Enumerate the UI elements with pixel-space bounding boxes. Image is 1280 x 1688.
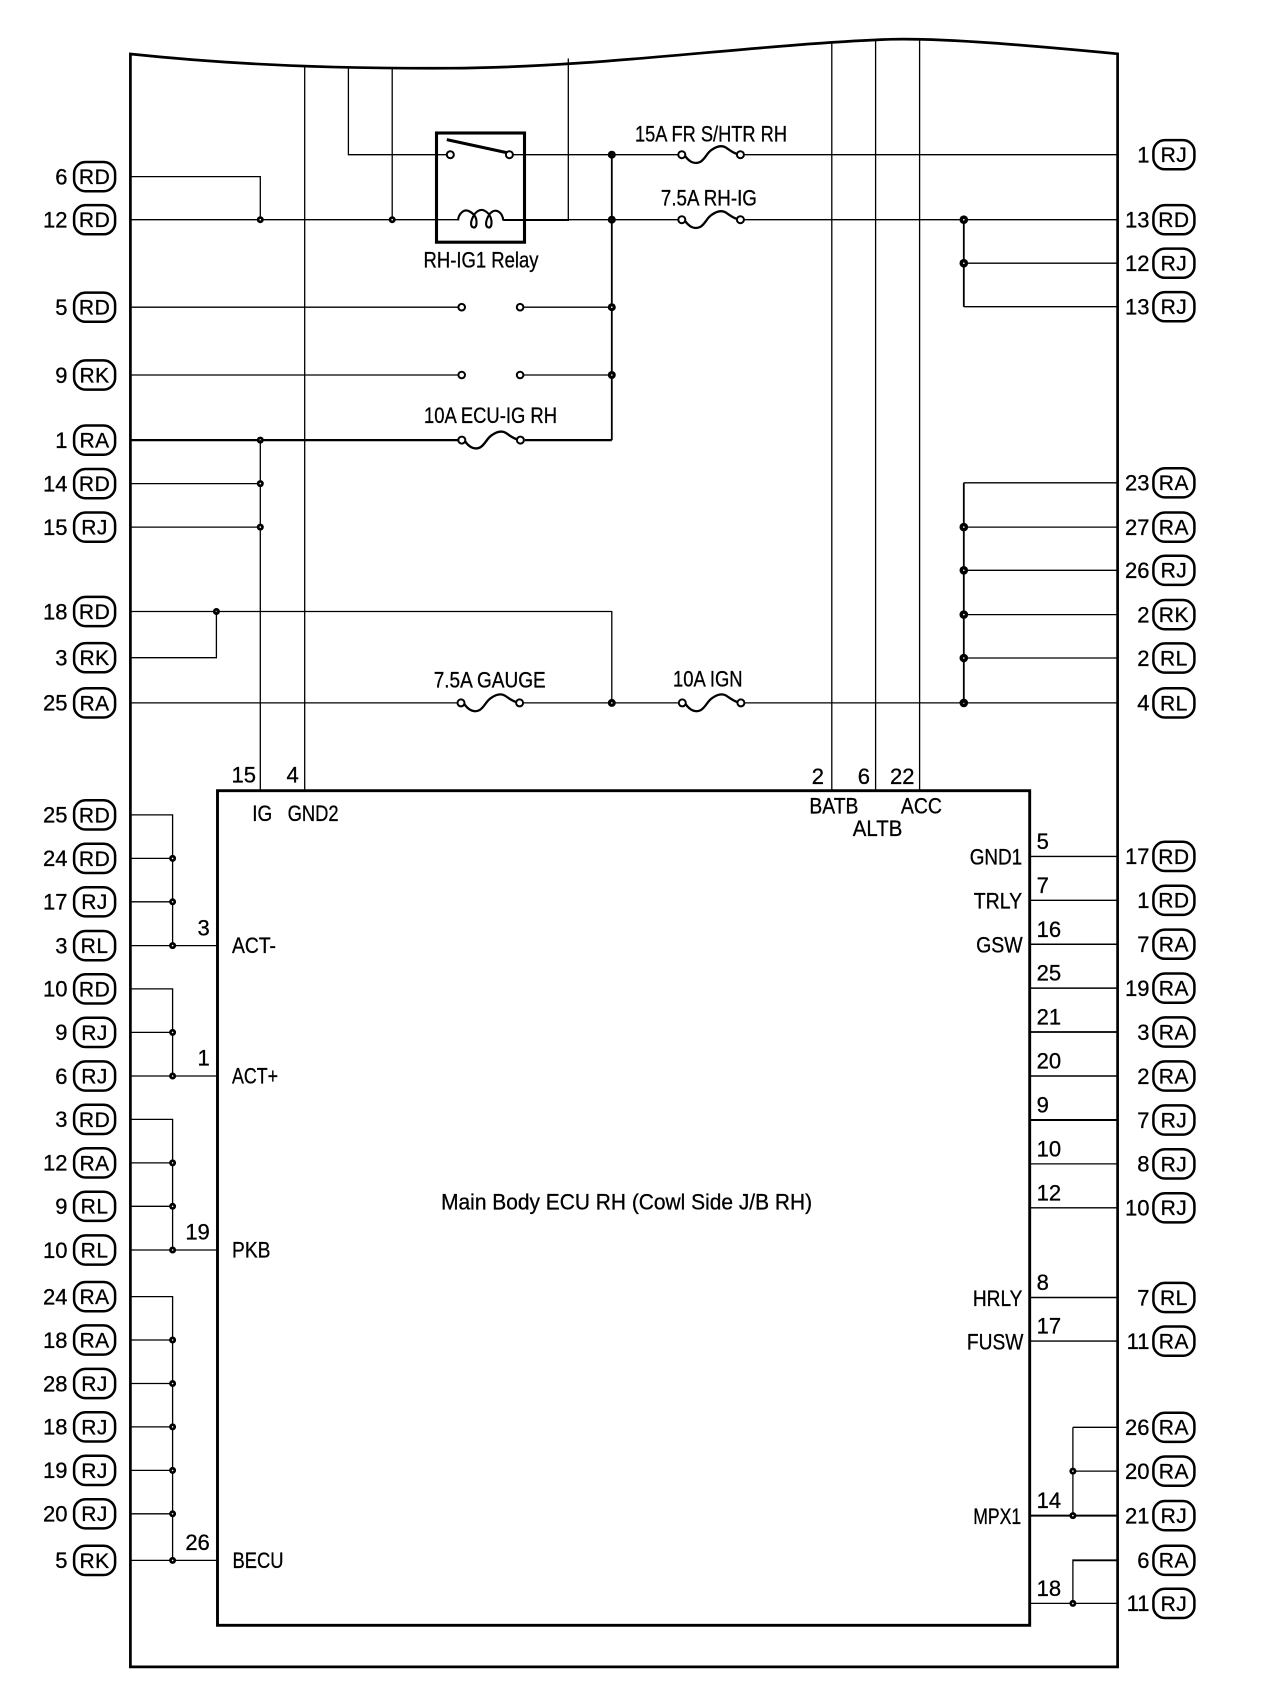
connector 2 RA (right) [1137,1061,1194,1090]
svg-text:RA: RA [80,1329,110,1352]
wire IG bus vertical [611,155,613,440]
connector 2 RL (right) [1137,643,1194,672]
connector 21 RJ (right) [1125,1501,1194,1530]
svg-text:25: 25 [1037,961,1061,986]
wire 28 RJ [132,1383,173,1385]
wire 9 RJ [132,1031,173,1033]
connector 14 RD (left) [43,469,115,498]
svg-text:20: 20 [1125,1459,1149,1484]
wire fuse 7.5A GAUGE to fuse 10A IGN [523,702,679,704]
svg-text:18: 18 [43,1415,67,1440]
svg-text:7.5A RH-IG: 7.5A RH-IG [661,186,757,211]
junction 11 RJ / 6 RA branch [1069,1600,1076,1607]
svg-text:RD: RD [79,804,110,827]
connector 26 RA (right) [1125,1413,1194,1442]
wire branch to 20 RA [1073,1470,1117,1472]
svg-text:3: 3 [55,646,67,671]
connector 4 RL (right) [1137,688,1194,717]
svg-text:RA: RA [80,692,110,715]
wire bus to 12 RJ [964,262,1117,264]
junction 1 RA / IG pin line [257,437,264,444]
connector 18 RA (left) [43,1325,115,1354]
wire 9 RL [132,1205,173,1207]
svg-text:RJ: RJ [1161,560,1188,583]
svg-text:RJ: RJ [81,1416,108,1439]
svg-text:7.5A GAUGE: 7.5A GAUGE [434,667,546,692]
svg-text:RA: RA [1159,1065,1189,1088]
svg-text:RA: RA [80,1152,110,1175]
wire pin 8 to 7 RL [1030,1297,1117,1299]
wire 19 RJ [132,1469,173,1471]
junction 15 RJ [257,524,264,531]
svg-text:8: 8 [1137,1152,1149,1177]
svg-text:10: 10 [43,1238,67,1263]
connector 6 RA (right) [1137,1546,1194,1575]
junction 18 RD / 3 RK [213,608,220,615]
junction IG bus / 7.5A row [608,216,616,224]
svg-text:13: 13 [1125,208,1149,233]
svg-text:3: 3 [55,1107,67,1132]
wire fuse 7.5A RH-IG to 13 RD [744,219,1117,221]
svg-text:20: 20 [1037,1049,1061,1074]
svg-text:27: 27 [1125,515,1149,540]
svg-text:RD: RD [1158,209,1189,232]
svg-text:9: 9 [55,1194,67,1219]
wire bus to 26 RJ [964,569,1117,571]
svg-text:FUSW: FUSW [967,1329,1024,1354]
wire pin 21 to 3 RA [1030,1031,1117,1033]
svg-text:10A ECU-IG RH: 10A ECU-IG RH [424,403,557,428]
svg-text:25: 25 [43,803,67,828]
connector 17 RD (right) [1125,842,1194,871]
wire ACC feed from top border (pin 22) [919,40,921,791]
wire pin 5 to 17 RD [1030,855,1117,857]
svg-text:RK: RK [1159,604,1189,627]
junction 24 RD [169,855,176,862]
svg-text:16: 16 [1037,917,1061,942]
wire 17 RJ [132,901,173,903]
junction IG bus / 15A row [608,151,616,159]
svg-text:RA: RA [1159,517,1189,540]
svg-text:12: 12 [1037,1180,1061,1205]
svg-text:RL: RL [81,1239,109,1262]
wire right bus lower vertical [963,483,965,703]
wire 18 RD to GAUGE node [132,612,612,703]
svg-text:RA: RA [80,1286,110,1309]
wire pin 16 to 7 RA [1030,943,1117,945]
connector 7 RA (right) [1137,930,1194,959]
svg-text:3: 3 [55,933,67,958]
connector 18 RD (left) [43,597,115,626]
connector 3 RA (right) [1137,1017,1194,1046]
wire 6 RJ to ACT+ pin 1 [132,1075,217,1077]
wire 25 RA to fuse 7.5A GAUGE [132,702,458,704]
svg-text:22: 22 [890,764,914,789]
svg-text:RJ: RJ [1161,1109,1188,1132]
junction 12 RA [169,1159,176,1166]
wire 25 RD branch to ACT- net [132,815,173,946]
wire 6 RD to 12 RD node [132,177,261,220]
svg-text:RA: RA [1159,1331,1189,1354]
svg-text:Main Body ECU RH (Cowl Side J/: Main Body ECU RH (Cowl Side J/B RH) [441,1189,812,1214]
svg-text:2: 2 [1137,602,1149,627]
connector 3 RD (left) [55,1105,115,1134]
wire BATB feed from top border (pin 2) [831,42,833,791]
junction GAUGE row / 18 RD drop [608,699,616,707]
junction 6 RJ / branch [169,1073,176,1080]
svg-text:RA: RA [1159,934,1189,957]
svg-text:ALTB: ALTB [853,816,903,841]
connector 11 RA (right) [1127,1327,1195,1356]
svg-text:RJ: RJ [81,1503,108,1526]
connector 7 RJ (right) [1137,1105,1194,1134]
contact points row 9 RK [458,372,523,379]
svg-text:18: 18 [43,599,67,624]
connector 19 RA (right) [1125,974,1194,1003]
connector 2 RK (right) [1137,600,1194,629]
svg-text:12: 12 [43,208,67,233]
wire pin 7 to 1 RD [1030,899,1117,901]
svg-text:19: 19 [185,1220,209,1245]
svg-text:9: 9 [55,363,67,388]
wire branch to 26 RA [1073,1426,1117,1428]
wire MPX1 branch vertical [1072,1427,1074,1515]
wire IG pin line (pin 15) [259,440,261,791]
connector 1 RA (left) [55,426,115,455]
J/B boundary frame (wavy top) [130,39,1117,1667]
svg-text:RD: RD [79,601,110,624]
wire pin 10 to 8 RJ [1030,1163,1117,1165]
svg-text:RA: RA [1159,472,1189,495]
wire 10 RL to PKB pin 19 [132,1249,217,1251]
svg-text:RA: RA [1159,978,1189,1001]
junction 2 RK [960,610,969,619]
svg-text:RL: RL [81,1196,109,1219]
junction IGN row / right bus [960,699,969,708]
svg-text:1: 1 [1137,143,1149,168]
svg-text:GSW: GSW [976,933,1023,958]
connector 1 RJ (right) [1137,140,1194,169]
wire contact point to IG bus (9 RK row) [523,374,612,376]
svg-text:RJ: RJ [1161,144,1188,167]
junction 10 RL / branch [169,1247,176,1254]
svg-text:RJ: RJ [1161,1153,1188,1176]
connector 18 RJ (left) [43,1412,115,1441]
svg-text:RD: RD [79,297,110,320]
svg-text:RJ: RJ [1161,1505,1188,1528]
wire relay coil to top border [503,59,568,221]
connector 20 RJ (left) [43,1499,115,1528]
connector 19 RJ (left) [43,1456,115,1485]
svg-text:5: 5 [55,1548,67,1573]
connector 10 RL (left) [43,1235,115,1264]
connector 23 RA (right) [1125,468,1194,497]
svg-text:18: 18 [1037,1576,1061,1601]
svg-text:28: 28 [43,1371,67,1396]
connector 6 RJ (left) [55,1061,115,1090]
wire bus to 23 RA [964,482,1117,484]
svg-text:RJ: RJ [81,517,108,540]
connector 12 RA (left) [43,1148,115,1177]
svg-text:RL: RL [1160,1287,1188,1310]
wire 6 RA branch vertical [1072,1559,1074,1603]
connector 20 RA (right) [1125,1457,1194,1486]
fuse 10A ECU-IG RH [458,432,524,449]
svg-text:RK: RK [80,647,110,670]
wire 20 RJ [132,1513,173,1515]
wire relay switch feed from top border [348,67,446,155]
connector 1 RD (right) [1137,886,1194,915]
svg-text:6: 6 [55,164,67,189]
svg-text:15A FR S/HTR RH: 15A FR S/HTR RH [635,122,787,147]
svg-text:3: 3 [1137,1020,1149,1045]
connector 13 RD (right) [1125,205,1194,234]
wire ALTB feed from top border (pin 6) [875,40,877,790]
svg-text:6: 6 [1137,1548,1149,1573]
junction 28 RJ [169,1380,176,1387]
connector 12 RJ (right) [1125,249,1194,278]
svg-text:RK: RK [80,1550,110,1573]
Main Body ECU RH box [218,791,1030,1626]
wire 12 RA [132,1162,173,1164]
wire 5 RK to BECU pin 26 [132,1559,217,1561]
svg-text:7: 7 [1037,873,1049,898]
svg-text:IG: IG [252,801,272,826]
svg-text:10: 10 [1125,1196,1149,1221]
svg-text:21: 21 [1125,1503,1149,1528]
relay RH-IG1 switch contacts [447,140,513,159]
svg-text:RL: RL [1160,647,1188,670]
connector 7 RL (right) [1137,1283,1194,1312]
svg-text:17: 17 [1037,1314,1061,1339]
svg-text:RA: RA [1159,1461,1189,1484]
wire feed from top border to 12 RD node [391,68,393,220]
connector 24 RA (left) [43,1282,115,1311]
wire pin 18 to 11 RJ [1030,1602,1117,1604]
svg-text:1: 1 [55,428,67,453]
svg-text:RJ: RJ [1161,253,1188,276]
junction MPX1 / 21 RJ [1069,1512,1076,1519]
wire bus to 2 RL [964,657,1117,659]
connector 25 RA (left) [43,688,115,717]
svg-text:RL: RL [1160,692,1188,715]
svg-text:RD: RD [79,848,110,871]
svg-text:19: 19 [1125,976,1149,1001]
svg-text:18: 18 [43,1328,67,1353]
svg-text:11: 11 [1127,1591,1150,1616]
svg-text:RA: RA [1159,1550,1189,1573]
wire 18 RA [132,1339,173,1341]
svg-text:4: 4 [1137,691,1149,716]
connector 6 RD (left) [55,162,115,191]
contact points row 5 RD [458,304,523,311]
svg-text:RA: RA [1159,1021,1189,1044]
svg-text:RA: RA [80,430,110,453]
fuse 7.5A RH-IG [678,211,744,228]
svg-text:RD: RD [1158,890,1189,913]
junction 6 RD / 12 RD [257,216,264,223]
junction 26 RJ [960,566,969,575]
junction IG bus / 5 RD row [608,303,616,311]
connector 5 RK (left) [55,1546,115,1575]
junction 18 RA [169,1337,176,1344]
svg-text:10: 10 [43,977,67,1002]
svg-text:7: 7 [1137,1285,1149,1310]
junction 20 RA [1069,1468,1076,1475]
connector 24 RD (left) [43,844,115,873]
connector 10 RD (left) [43,974,115,1003]
svg-text:14: 14 [1037,1488,1061,1513]
svg-text:19: 19 [43,1458,67,1483]
svg-text:RD: RD [79,473,110,496]
wire right bus upper vertical [963,220,965,307]
svg-text:26: 26 [1125,558,1149,583]
junction 12 RD / top feed [389,216,396,223]
junction 27 RA [960,523,969,532]
svg-text:2: 2 [1137,646,1149,671]
svg-text:HRLY: HRLY [973,1286,1023,1311]
svg-text:2: 2 [1137,1064,1149,1089]
svg-text:RL: RL [81,935,109,958]
wire fuse 10A ECU-IG RH to IG bus [525,439,612,441]
connector 5 RD (left) [55,293,115,322]
svg-text:9: 9 [55,1020,67,1045]
junction 12 RJ [960,259,969,268]
wire 15 RJ to IG pin line [132,526,261,528]
fuse 10A IGN [679,694,745,711]
svg-text:RD: RD [79,166,110,189]
connector 25 RD (left) [43,800,115,829]
wire relay switch to fuse 15A [513,154,679,156]
wire pin 20 to 2 RA [1030,1075,1117,1077]
svg-text:12: 12 [1125,251,1149,276]
wire fuse 15A to 1 RJ [744,154,1117,156]
wire bus to 13 RJ [964,306,1117,308]
junction 3 RL / branch [169,942,176,949]
connector 15 RJ (left) [43,513,115,542]
svg-text:RJ: RJ [81,1065,108,1088]
wire pin 12 to 10 RJ [1030,1207,1117,1209]
wire 9 RK to contact point [132,374,459,376]
connector 3 RK (left) [55,643,115,672]
svg-text:9: 9 [1037,1093,1049,1118]
wire 14 RD to IG pin line [132,483,261,485]
wire coil row to fuse 7.5A RH-IG [503,219,679,221]
svg-text:15: 15 [232,763,256,788]
svg-text:BATB: BATB [809,793,858,818]
wire pin 9 to 7 RJ [1030,1119,1117,1121]
fuse 15A FR S/HTR RH [678,146,744,163]
svg-text:5: 5 [1037,829,1049,854]
wire fuse 10A IGN to 4 RL [744,702,1116,704]
svg-text:RD: RD [79,209,110,232]
svg-text:RD: RD [79,1109,110,1132]
connector 9 RL (left) [55,1192,115,1221]
connector 17 RJ (left) [43,887,115,916]
svg-text:RJ: RJ [1161,1593,1188,1616]
svg-text:14: 14 [43,471,67,496]
junction 19 RJ [169,1467,176,1474]
wire bus to 27 RA [964,526,1117,528]
connector 28 RJ (left) [43,1369,115,1398]
connector 12 RD (left) [43,205,115,234]
svg-text:MPX1: MPX1 [973,1504,1021,1529]
wire 10 RD branch to ACT+ net [132,989,173,1076]
svg-text:25: 25 [43,691,67,716]
wire pin 25 to 19 RA [1030,987,1117,989]
svg-text:17: 17 [43,890,67,915]
svg-text:24: 24 [43,1284,67,1309]
svg-text:RD: RD [79,978,110,1001]
junction 13 RD row / bus [960,215,969,224]
svg-text:7: 7 [1137,932,1149,957]
wire 24 RA branch to BECU net [132,1297,173,1561]
svg-text:24: 24 [43,846,67,871]
svg-text:13: 13 [1125,295,1149,320]
wire 12 RD to relay coil [132,219,459,221]
junction 9 RJ [169,1029,176,1036]
svg-text:RJ: RJ [1161,296,1188,319]
svg-text:21: 21 [1037,1005,1061,1030]
svg-text:15: 15 [43,515,67,540]
svg-text:6: 6 [858,764,870,789]
svg-text:RJ: RJ [81,1373,108,1396]
svg-text:RJ: RJ [81,1022,108,1045]
junction 14 RD [257,480,264,487]
connector 26 RJ (right) [1125,556,1194,585]
relay RH-IG1 coil [458,210,503,228]
svg-text:12: 12 [43,1151,67,1176]
wire GND2 feed from top border (pin 4) [304,67,306,791]
svg-text:20: 20 [43,1502,67,1527]
wire 18 RJ [132,1426,173,1428]
wire 3 RK link [132,612,217,658]
svg-text:6: 6 [55,1064,67,1089]
svg-text:ACT-: ACT- [232,933,276,958]
connector 3 RL (left) [55,931,115,960]
svg-text:TRLY: TRLY [974,889,1023,914]
wire 1 RA to fuse 10A ECU-IG RH [132,439,459,441]
svg-text:RJ: RJ [1161,1197,1188,1220]
svg-text:ACT+: ACT+ [232,1063,278,1088]
junction 17 RJ [169,898,176,905]
wire 3 RD branch to PKB net [132,1119,173,1250]
junction 20 RJ [169,1510,176,1517]
svg-text:26: 26 [1125,1415,1149,1440]
wire 24 RD [132,857,173,859]
wire MPX1 pin 14 to 21 RJ [1030,1515,1117,1517]
junction IG bus / 9 RK row [608,371,616,379]
connector 27 RA (right) [1125,513,1194,542]
wire 5 RD to contact point [132,306,459,308]
svg-text:1: 1 [198,1046,210,1071]
svg-text:26: 26 [185,1530,209,1555]
wire pin 17 to 11 RA [1030,1340,1117,1342]
svg-text:1: 1 [1137,888,1149,913]
connector 11 RJ (right) [1127,1589,1195,1618]
svg-text:4: 4 [287,763,299,788]
relay RH-IG1 box [437,133,525,242]
svg-text:RK: RK [80,364,110,387]
connector 8 RJ (right) [1137,1149,1194,1178]
svg-text:7: 7 [1137,1108,1149,1133]
svg-text:RJ: RJ [81,1460,108,1483]
svg-text:GND1: GND1 [970,845,1023,870]
svg-text:RD: RD [1158,846,1189,869]
svg-text:10A IGN: 10A IGN [673,667,743,692]
connector 9 RK (left) [55,360,115,389]
svg-text:2: 2 [812,764,824,789]
